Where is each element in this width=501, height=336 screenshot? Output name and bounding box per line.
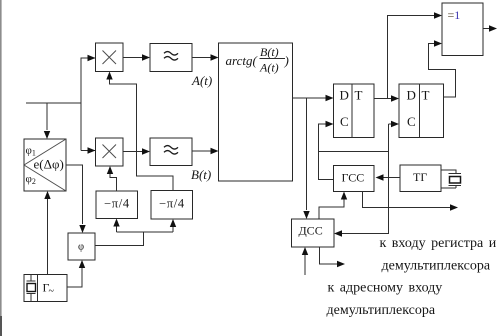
arctg block U1 <box>219 43 293 181</box>
wire: arrow down into phase comparator e(dphi) <box>44 103 50 139</box>
wire: M2 output to F2 <box>123 148 150 154</box>
wire: GSS output down then right (to register input) <box>363 192 459 211</box>
wire: TG output into GSS <box>376 174 401 180</box>
annotation: demultipleksora (right) <box>382 259 491 274</box>
phase shifter -pi/4 block P1 <box>96 191 138 219</box>
phase shifter phi <box>68 233 95 260</box>
svg-text:): ) <box>284 53 289 68</box>
wire: DT2 output loop up into XOR input 2 <box>429 40 456 97</box>
wire: G~ top up into e(dphi) bottom <box>44 191 50 275</box>
D-trigger DT1 <box>334 84 375 138</box>
wire: F1 output to arctg block <box>192 54 219 60</box>
svg-text:к адресному входу: к адресному входу <box>328 281 443 296</box>
TG block <box>400 165 441 192</box>
multiplier M2 (bottom x) <box>96 138 124 166</box>
phase shifter -pi/4 block P2 <box>151 191 193 220</box>
lowpass filter F2 (bottom) <box>150 138 192 166</box>
svg-text:A(t): A(t) <box>191 73 212 88</box>
svg-text:B(t): B(t) <box>260 45 279 59</box>
svg-text:T: T <box>422 88 430 103</box>
svg-text:~: ~ <box>49 286 55 297</box>
svg-text:A(t): A(t) <box>259 61 279 75</box>
wire: arrow into multiplier M2 <box>87 147 96 153</box>
wire: XOR output arrow <box>483 25 497 31</box>
svg-text:T: T <box>355 88 363 103</box>
svg-text:C: C <box>407 114 416 129</box>
DSS block <box>292 219 335 247</box>
svg-text:φ: φ <box>78 242 84 253</box>
annotation: demultipleksora (left) <box>327 303 436 318</box>
wire: F2 output to arctg block <box>192 148 219 154</box>
wire: phi output to both -pi/4 blocks <box>95 219 176 246</box>
svg-text:к входу регистра и: к входу регистра и <box>380 236 497 251</box>
annotation: k adresnomu vhodu <box>328 281 443 296</box>
lowpass filter F1 (top) <box>150 44 192 72</box>
svg-text:C: C <box>340 114 349 129</box>
wire: DSS bottom output arrow right <box>320 247 346 267</box>
wire: signal input line <box>26 102 81 104</box>
svg-text:D: D <box>340 88 349 103</box>
wire: M1 output to F1 <box>123 54 150 60</box>
multiplier M1 (top x) <box>96 43 124 72</box>
GSS block <box>334 166 375 192</box>
svg-text:arctg(: arctg( <box>226 53 258 68</box>
label B(t) <box>191 167 211 182</box>
XOR block =1 <box>442 3 483 56</box>
reference generator G~ with quartz <box>24 275 67 302</box>
svg-text:ТГ: ТГ <box>413 170 427 184</box>
wire: input distribution vertical with corners to both multipliers <box>81 58 88 151</box>
svg-text:e(Δφ): e(Δφ) <box>34 157 64 172</box>
wire: G~ output up into phi bottom <box>67 260 85 287</box>
wire: arrow into multiplier M1 <box>87 55 96 61</box>
svg-text:−π/4: −π/4 <box>159 197 185 211</box>
svg-text:=1: =1 <box>448 8 461 22</box>
label A(t) <box>191 73 212 88</box>
wire: clock net from GSS to C inputs and DSS <box>319 121 400 237</box>
wire: P1 output up to M2 bottom input <box>107 166 117 191</box>
wire: e(dphi) output right then down to phase shifter phi <box>66 165 86 233</box>
svg-text:демультиплексора: демультиплексора <box>382 259 491 274</box>
wire: DT1 output to DT2 D input and branch up to XOR input 1 <box>374 12 442 101</box>
D-trigger DT2 <box>399 84 444 138</box>
phase comparator e(dphi) <box>24 139 66 191</box>
svg-text:ГСС: ГСС <box>342 171 365 185</box>
quartz resonator at TG <box>441 170 461 188</box>
left page border line <box>0 0 2 336</box>
annotation: k vhodu registra i <box>380 236 497 251</box>
wire: DSS bottom input arrow up <box>302 247 308 275</box>
svg-text:демультиплексора: демультиплексора <box>327 303 436 318</box>
svg-text:B(t): B(t) <box>191 167 211 182</box>
svg-text:ДСС: ДСС <box>299 224 323 238</box>
wire: arctg output to trigger DT1 and branch down to DSS <box>293 95 334 219</box>
svg-text:D: D <box>407 88 416 103</box>
wire: P2 output up to M1 bottom input <box>106 72 173 191</box>
svg-text:−π/4: −π/4 <box>104 197 130 211</box>
wire: DSS up to GSS bottom <box>319 192 347 220</box>
